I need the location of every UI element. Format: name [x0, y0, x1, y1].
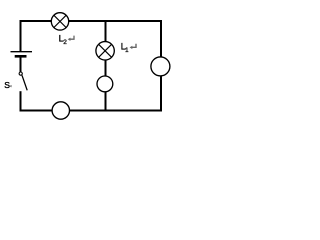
label L1 with grey return arrow	[121, 42, 136, 54]
battery (cell): short thick negative plate	[15, 55, 27, 58]
wire: top side	[20, 20, 163, 22]
wire: right side	[160, 20, 162, 112]
battery (cell): long thin positive plate	[11, 51, 33, 53]
wire: battery negative to switch	[20, 58, 22, 73]
wire: left side upper (top-left corner down to battery)	[20, 20, 22, 51]
label L2 with grey return arrow	[59, 34, 74, 46]
meter (plain circle) on right side wire	[151, 57, 170, 76]
label S with small grey triangle	[4, 80, 11, 90]
meter (plain circle) on middle branch below L1	[97, 76, 113, 92]
svg-text:L2: L2	[59, 34, 68, 46]
wire: middle branch (junction on top wire through L1 and meter to bottom wire)	[105, 21, 107, 111]
svg-text:L1: L1	[121, 42, 129, 54]
lamp L2 (circle with X) on top wire	[51, 13, 68, 30]
lamp L1 (circle with X) on middle branch	[96, 42, 114, 60]
meter (plain circle) on bottom wire	[52, 102, 69, 119]
wire: left side lower (switch down to bottom-left corner)	[20, 91, 22, 111]
switch S (open): pivot circle and blade	[19, 72, 27, 90]
wire: bottom side	[20, 110, 163, 112]
svg-text:S: S	[4, 80, 10, 90]
